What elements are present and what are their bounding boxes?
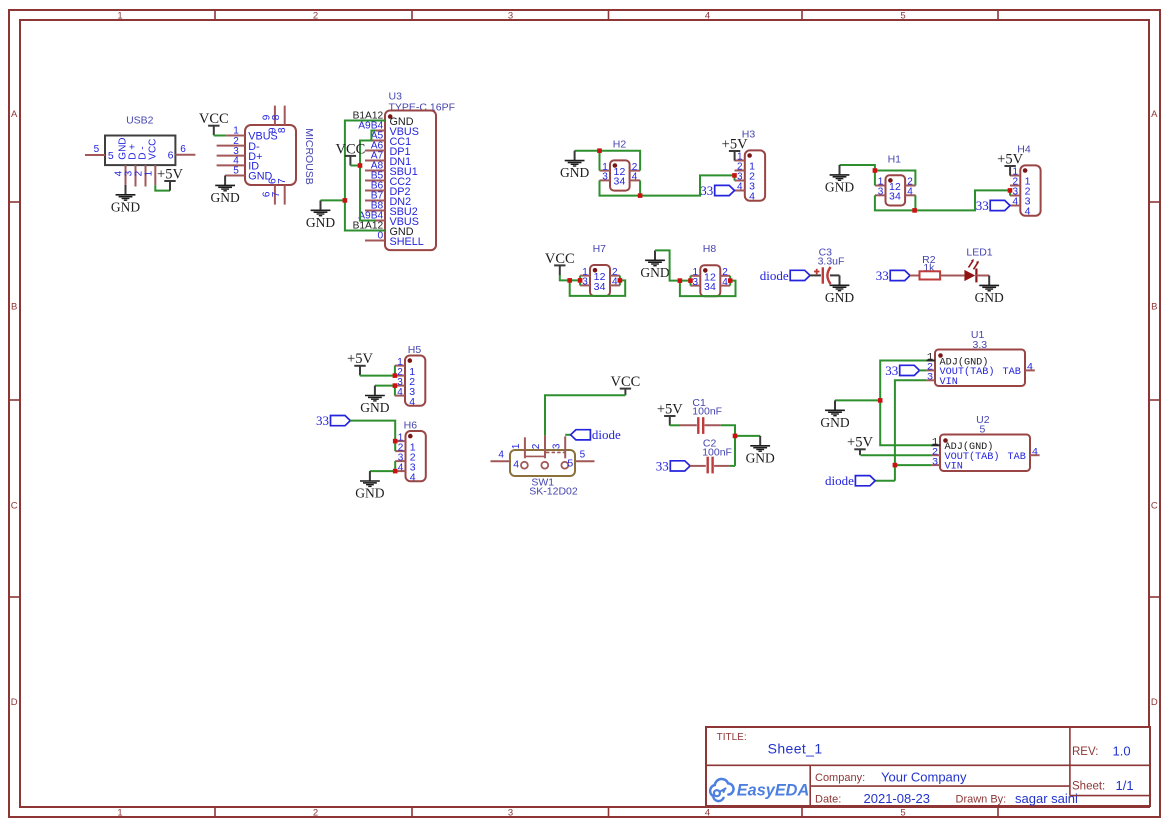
title block: [706, 727, 1150, 806]
connector H7: [580, 243, 620, 296]
svg-text:diode: diode: [592, 427, 621, 442]
MICROUSB pin 8: [271, 106, 288, 134]
svg-text:MICROUSB: MICROUSB: [303, 128, 315, 185]
U3 pin 0 SHELL: [365, 231, 424, 248]
svg-text:3: 3: [582, 277, 588, 288]
svg-text:H8: H8: [703, 243, 717, 255]
svg-text:H5: H5: [408, 344, 422, 356]
svg-text:VIN: VIN: [945, 462, 963, 473]
svg-text:2021-08-23: 2021-08-23: [864, 791, 931, 806]
U1 pin 2 VOUT: [926, 362, 935, 374]
connector H1: [875, 153, 916, 205]
svg-text:H2: H2: [613, 139, 627, 151]
wire H2 left loop: [575, 151, 641, 171]
SW1 pin 5: [567, 450, 594, 470]
regulator U1 3.3: [935, 329, 1025, 388]
wire 33 to H6 pin1: [350, 421, 395, 442]
net label diode at U2: [825, 473, 875, 488]
net label 33 at U1: [885, 363, 919, 378]
svg-text:GND: GND: [640, 265, 669, 280]
U3 pin A9B4 VBUS: [358, 211, 419, 228]
wire H8 pins 2-4 tie: [729, 276, 731, 286]
MICROUSB pin 9: [261, 106, 278, 134]
wire H1 left loop: [840, 165, 875, 186]
junction U3 GND: [343, 198, 348, 203]
svg-text:3: 3: [693, 277, 699, 288]
svg-text:3: 3: [508, 11, 513, 22]
svg-text:H6: H6: [404, 419, 418, 431]
connector H4: [1010, 144, 1041, 218]
svg-text:GND: GND: [111, 199, 140, 214]
wire H1 to H4 pin3: [915, 190, 1010, 210]
net label 33 at H6: [316, 413, 350, 428]
connector U3 TYPE-C 16PF: [385, 91, 455, 250]
svg-text:3: 3: [602, 172, 608, 183]
regulator U2 5: [940, 414, 1030, 473]
wire +5V to U2 pin2: [861, 454, 932, 456]
USB2 pin 6: [168, 144, 196, 162]
U3 pin B5 CC2: [365, 171, 411, 188]
wire H8 loop: [680, 281, 736, 297]
svg-text:4: 4: [1025, 206, 1031, 218]
junction H6 pin1: [393, 439, 398, 444]
wire GND to H6 pin4: [370, 470, 395, 472]
svg-text:4: 4: [895, 191, 901, 203]
svg-text:33: 33: [976, 198, 989, 213]
svg-text:4: 4: [513, 458, 519, 470]
power +5V: [997, 151, 1023, 175]
EasyEDA logo: [710, 779, 809, 801]
connector MICROUSB: [245, 125, 315, 185]
wire H6 pins1-2 tie: [394, 441, 396, 451]
junction H3: [732, 173, 737, 178]
svg-text:GND: GND: [746, 450, 775, 465]
wire H5 pins1-2 tie: [394, 366, 396, 376]
svg-text:3: 3: [932, 456, 938, 468]
svg-text:33: 33: [876, 268, 889, 283]
U2 pin 1 ADJ: [932, 437, 941, 449]
svg-text:4: 4: [1032, 446, 1038, 458]
LED LED1: [964, 247, 992, 283]
svg-text:7: 7: [271, 191, 282, 197]
junction H5 pin3: [393, 383, 398, 388]
U3 pin A5 CC1: [365, 131, 411, 148]
svg-text:2: 2: [531, 443, 542, 449]
wire GND to H8: [655, 250, 691, 280]
svg-text:1.0: 1.0: [1113, 744, 1131, 759]
U1 pin 1 ADJ: [927, 352, 936, 364]
U3 pin B1A12 GND: [353, 111, 414, 128]
svg-text:diode: diode: [760, 268, 789, 283]
svg-text:4: 4: [722, 277, 728, 288]
SW1 contact bar 1-2: [525, 455, 545, 457]
wire C1 to junction: [721, 425, 735, 466]
junction GND U1-U2: [878, 398, 883, 403]
wire VCC to MICROUSB pin1: [214, 135, 227, 137]
wire 33 to U1 pin2: [920, 369, 927, 371]
svg-text:EasyEDA: EasyEDA: [737, 781, 809, 799]
svg-text:Drawn By:: Drawn By:: [956, 794, 1007, 806]
svg-text:6: 6: [168, 150, 174, 162]
net label diode at C3: [760, 268, 810, 283]
wire GND to H5 pin3: [375, 385, 395, 387]
net label 33 at C2: [656, 458, 690, 473]
ground GND at H5: [360, 386, 389, 416]
junction H1 bottom: [912, 208, 917, 213]
junction H5 pin2: [393, 373, 398, 378]
svg-text:4: 4: [619, 176, 625, 188]
svg-text:VCC: VCC: [147, 139, 158, 160]
wire diode flag to VIN: [875, 480, 895, 482]
wire R2 to LED1: [940, 275, 964, 277]
svg-text:33: 33: [700, 183, 713, 198]
junction H2 top: [597, 148, 602, 153]
svg-text:7: 7: [277, 178, 288, 184]
svg-text:GND: GND: [825, 180, 854, 195]
svg-text:diode: diode: [825, 473, 854, 488]
svg-text:GND: GND: [975, 290, 1004, 305]
ground GND at H8: [640, 250, 669, 280]
junction H8 a: [678, 278, 683, 283]
ground GND at H2: [560, 151, 589, 181]
svg-text:GND: GND: [560, 165, 589, 180]
wire U3 VBUS net: [360, 131, 375, 221]
net label diode at SW1: [571, 427, 621, 442]
MICROUSB pin 1 VBUS: [226, 126, 277, 143]
U3 pin B1A12 GND: [353, 221, 414, 238]
svg-text:SHELL: SHELL: [390, 236, 424, 248]
power +5V: [157, 166, 183, 190]
U3 pin A8 SBU1: [365, 161, 418, 178]
svg-text:4: 4: [1013, 197, 1019, 208]
svg-text:B: B: [1151, 301, 1157, 312]
svg-text:5: 5: [900, 11, 905, 22]
svg-text:4: 4: [710, 281, 716, 293]
SW1 dashed contact 2-3: [546, 451, 565, 453]
connector H6: [395, 419, 426, 483]
svg-text:Date:: Date:: [815, 794, 841, 806]
svg-text:TAB: TAB: [1003, 367, 1021, 378]
U2 pin 3 VIN: [931, 456, 940, 468]
connector H3: [735, 129, 766, 203]
power +5V: [847, 435, 873, 456]
USB2 pin 4 GND: [114, 137, 129, 184]
ground GND at LED1: [975, 276, 1004, 306]
wire H7 pins 1-3 tie: [579, 276, 581, 286]
svg-text:VIN: VIN: [940, 377, 958, 388]
svg-text:2: 2: [313, 807, 318, 818]
svg-text:3: 3: [508, 807, 513, 818]
svg-text:2: 2: [313, 11, 318, 22]
svg-text:TITLE:: TITLE:: [717, 732, 747, 743]
svg-text:4: 4: [409, 396, 415, 408]
wire C2 to junction: [730, 465, 735, 467]
svg-text:3: 3: [878, 187, 884, 198]
U2 pin 2 VOUT: [931, 446, 940, 458]
svg-text:Company:: Company:: [815, 772, 865, 784]
svg-text:8: 8: [277, 127, 288, 133]
MICROUSB pin 7: [271, 178, 288, 205]
svg-text:4: 4: [1027, 362, 1033, 374]
wire VCC to VBUS: [350, 165, 360, 167]
svg-text:5: 5: [94, 144, 100, 155]
svg-text:GND: GND: [210, 190, 239, 205]
wire SW1 pin3 to diode: [565, 434, 570, 436]
svg-text:B: B: [11, 301, 17, 312]
power VCC: [545, 251, 575, 275]
U1 pin 4 TAB: [1025, 362, 1035, 374]
svg-text:4: 4: [410, 471, 416, 483]
svg-text:H1: H1: [888, 153, 902, 165]
svg-text:4: 4: [907, 187, 913, 198]
junction H8 c: [728, 278, 733, 283]
wire H7 loop: [570, 280, 626, 296]
svg-text:5: 5: [233, 166, 239, 177]
svg-text:D: D: [1151, 697, 1158, 708]
USB2 pin 1 VCC: [144, 139, 159, 186]
SW1 pin 1: [511, 437, 525, 458]
wire U3 GND net: [345, 121, 385, 231]
svg-text:LED1: LED1: [966, 247, 992, 259]
MICROUSB pin 2 D-: [217, 136, 260, 153]
U3 pin B8 SBU2: [365, 201, 418, 218]
SW1 pin 3: [551, 436, 565, 458]
svg-text:4: 4: [498, 450, 504, 461]
wire U1 pin1 GND net: [880, 361, 931, 446]
svg-text:H7: H7: [593, 243, 607, 255]
svg-text:TAB: TAB: [1008, 452, 1026, 463]
svg-text:33: 33: [885, 363, 898, 378]
SW1 pin 4: [491, 450, 520, 471]
svg-text:D: D: [11, 697, 18, 708]
U3 pin B6 DP2: [365, 181, 411, 198]
U2 pin 4 TAB: [1030, 446, 1040, 458]
svg-text:C: C: [11, 500, 18, 511]
wire U1 pin3 VIN net: [895, 380, 927, 480]
junction VBUS-VCC: [358, 163, 363, 168]
ground GND at H6: [355, 471, 384, 501]
svg-text:REV:: REV:: [1072, 746, 1098, 758]
MICROUSB pin 3 D+: [217, 146, 263, 163]
svg-text:4: 4: [749, 191, 755, 203]
U3 pin A9B4 VBUS: [358, 121, 419, 138]
ground GND at USB2: [111, 185, 140, 215]
svg-text:1: 1: [511, 443, 522, 449]
ground GND at H1: [825, 165, 854, 195]
power +5V: [722, 136, 748, 160]
svg-text:4: 4: [737, 182, 743, 193]
MICROUSB pin 5 GND: [225, 166, 272, 183]
U3 pin A7 DN1: [365, 151, 411, 168]
svg-text:1/1: 1/1: [1116, 778, 1134, 793]
wire 33 to R2: [910, 275, 920, 277]
connector H8: [690, 243, 730, 296]
net label 33 at H4: [976, 198, 1010, 213]
svg-text:4: 4: [397, 387, 403, 398]
svg-text:0: 0: [378, 231, 384, 242]
svg-text:4: 4: [612, 277, 618, 288]
wire H6 pins3-4 tie: [394, 461, 396, 471]
MICROUSB pin 4 ID: [217, 156, 260, 173]
U3 pin B7 DN2: [365, 191, 411, 208]
junction H4: [1008, 188, 1013, 193]
power VCC: [335, 141, 365, 165]
svg-text:GND: GND: [306, 215, 335, 230]
wire H7 pins 2-4 tie: [619, 276, 621, 286]
connector H5: [395, 344, 426, 408]
svg-text:1: 1: [144, 170, 155, 176]
svg-text:GND: GND: [360, 400, 389, 415]
USB2 pin 3 D +: [124, 144, 139, 187]
junction H6 pin4: [393, 469, 398, 474]
net label 33 at H3: [700, 183, 734, 198]
wire GND symbol to net: [835, 399, 880, 401]
svg-text:4: 4: [398, 462, 404, 473]
connector H2: [600, 139, 641, 191]
connector USB2: [105, 114, 175, 165]
net label 33 at R2: [876, 268, 910, 283]
power +5V: [657, 401, 683, 425]
U3 pin A6 DP1: [365, 141, 411, 158]
wire LED1 to GND: [976, 275, 989, 277]
wire GND to U3: [321, 199, 345, 201]
svg-text:GND: GND: [355, 486, 384, 501]
USB2 pin 5: [85, 144, 114, 162]
svg-text:3: 3: [551, 443, 562, 449]
USB2 pin 2 D -: [134, 146, 149, 186]
wire H2 to H3 pin3: [640, 175, 734, 195]
svg-text:GND: GND: [825, 290, 854, 305]
wire junction to GND: [735, 435, 760, 437]
junction H8 b: [688, 278, 693, 283]
svg-text:3.3uF: 3.3uF: [818, 256, 845, 268]
svg-text:100nF: 100nF: [692, 406, 722, 418]
svg-text:A: A: [1151, 109, 1158, 120]
wire VCC to H7: [560, 275, 580, 280]
svg-text:5: 5: [108, 150, 114, 162]
U1 pin 3 VIN: [926, 372, 935, 384]
svg-text:A: A: [11, 109, 18, 120]
SW1 pin 2: [531, 435, 545, 458]
junction H7 a: [567, 278, 572, 283]
svg-text:C: C: [1151, 500, 1158, 511]
wire U2 pin3 VIN: [895, 464, 932, 466]
svg-text:Sheet_1: Sheet_1: [768, 741, 823, 757]
svg-text:GND: GND: [820, 415, 849, 430]
ground GND at U3: [306, 200, 335, 230]
ground GND at U1 U2: [820, 400, 849, 430]
svg-text:1: 1: [117, 807, 122, 818]
svg-text:33: 33: [656, 458, 669, 473]
ground GND at C3: [825, 275, 854, 305]
svg-text:5: 5: [567, 458, 573, 470]
svg-text:1: 1: [117, 11, 122, 22]
switch SW1 SK-12D02: [510, 450, 578, 497]
power VCC: [610, 374, 640, 395]
wire +5V to C1: [670, 424, 680, 426]
junction C1-C2-GND: [733, 434, 738, 439]
ground GND at C1 C2: [746, 436, 775, 466]
svg-text:3: 3: [927, 372, 933, 384]
svg-text:6: 6: [180, 144, 186, 155]
svg-text:5: 5: [580, 450, 586, 461]
capacitor C2 100nF: [690, 438, 732, 474]
power VCC: [199, 111, 229, 135]
svg-text:4: 4: [632, 172, 638, 183]
svg-text:4: 4: [705, 11, 710, 22]
capacitor C1 100nF: [680, 397, 722, 434]
svg-text:Your Company: Your Company: [881, 770, 967, 785]
junction H2 bottom: [638, 193, 643, 198]
svg-text:4: 4: [705, 807, 710, 818]
junction VIN diode: [893, 463, 898, 468]
wire H8 pins 1-3 tie: [690, 276, 692, 286]
power +5V: [347, 351, 373, 375]
svg-text:SK-12D02: SK-12D02: [529, 485, 578, 497]
svg-text:4: 4: [600, 281, 606, 293]
junction H1 top: [873, 168, 878, 173]
svg-text:sagar saini: sagar saini: [1015, 791, 1078, 806]
junction H7 b: [578, 278, 583, 283]
junction H7 c: [618, 278, 623, 283]
ground GND at MICROUSB: [210, 176, 239, 206]
capacitor C3 3.3uF: [810, 247, 844, 284]
svg-text:USB2: USB2: [126, 114, 154, 126]
MICROUSB pin 6: [261, 178, 278, 205]
wire VCC to SW1 pin2: [545, 395, 625, 435]
wire +5V to H5 pin2: [360, 375, 395, 377]
wire USB2 pin1 to +5V: [155, 185, 170, 190]
svg-text:8: 8: [271, 114, 282, 120]
svg-text:5: 5: [900, 807, 905, 818]
resistor R2 1k: [920, 254, 941, 279]
svg-text:33: 33: [316, 413, 329, 428]
wire H5 pins3-4 tie: [394, 386, 396, 396]
